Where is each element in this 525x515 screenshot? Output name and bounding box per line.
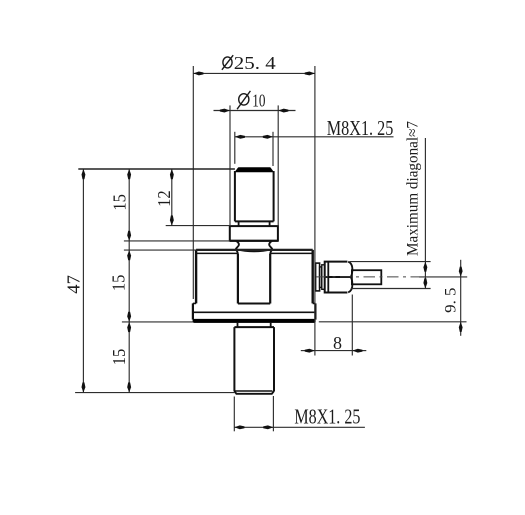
dimension max diagonal bbox=[350, 138, 431, 289]
label 15 a bbox=[110, 194, 130, 211]
dimension O25.4 bbox=[193, 66, 315, 356]
label 12 bbox=[154, 190, 174, 207]
collar O10 bbox=[230, 226, 278, 241]
label 8 bbox=[333, 333, 342, 353]
bottom neck bbox=[238, 323, 271, 327]
dimension O10 bbox=[214, 105, 296, 226]
top stud M8 bbox=[235, 168, 274, 222]
label M8X1.25 bottom bbox=[294, 405, 360, 429]
label M8X1.25 top bbox=[327, 116, 394, 140]
svg-text:9. 5: 9. 5 bbox=[442, 288, 459, 313]
svg-text:12: 12 bbox=[154, 190, 174, 207]
label 47 bbox=[64, 275, 84, 294]
center boss bbox=[238, 254, 270, 304]
label O10 bbox=[237, 90, 265, 110]
label 15 b bbox=[109, 275, 129, 292]
connector washer 2 bbox=[322, 265, 325, 290]
dimension 12 bbox=[166, 169, 231, 226]
svg-text:25. 4: 25. 4 bbox=[234, 53, 276, 73]
connector hex nut bbox=[325, 262, 353, 293]
svg-text:47: 47 bbox=[64, 275, 84, 294]
centerline dash-dot bbox=[317, 276, 468, 278]
svg-text:15: 15 bbox=[110, 194, 130, 211]
dimension 47 bbox=[75, 169, 235, 393]
cable bbox=[352, 270, 381, 284]
bottom stud M8 bbox=[234, 327, 274, 394]
label O25.4 bbox=[222, 53, 276, 73]
top stud neck bbox=[239, 221, 270, 226]
main body bbox=[193, 250, 316, 323]
dimension 9.5 bbox=[319, 260, 467, 336]
label 9.5 bbox=[442, 288, 459, 313]
dimension M8X1.25 bottom bbox=[234, 396, 365, 431]
svg-text:M8X1. 25: M8X1. 25 bbox=[327, 116, 394, 140]
svg-text:15: 15 bbox=[109, 349, 129, 366]
svg-text:10: 10 bbox=[252, 90, 265, 110]
dimension 8 bbox=[301, 295, 367, 356]
svg-text:15: 15 bbox=[109, 275, 129, 292]
connector ring bbox=[320, 267, 322, 288]
dimension M8X1.25 top bbox=[235, 132, 394, 166]
waist fillets bbox=[230, 241, 278, 255]
connector washer bbox=[316, 263, 320, 291]
dimension 15 x3 bbox=[122, 169, 313, 393]
svg-text:8: 8 bbox=[333, 333, 342, 353]
label 15 c bbox=[109, 349, 129, 366]
svg-text:M8X1. 25: M8X1. 25 bbox=[294, 405, 360, 429]
svg-text:Maximum diagonal≈7: Maximum diagonal≈7 bbox=[405, 121, 422, 256]
label Maximum diagonal 7 bbox=[405, 121, 422, 256]
